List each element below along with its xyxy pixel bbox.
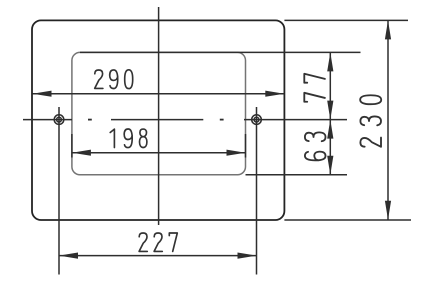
right mounting hole vertical crosshair / 227 extension line (256, 107, 258, 275)
extension line 198 left (overlapping inner rect edge) (71, 134, 73, 158)
dim text 290 (95, 70, 133, 89)
horizontal centerline segment left through hole (23, 119, 72, 121)
dimension line 230 (387, 20, 389, 219)
dimension line 227 (59, 255, 257, 257)
dim text 227 (139, 233, 177, 251)
dimension line 198 (72, 152, 246, 154)
arrow 290 right (265, 91, 284, 97)
arrow 198 right (227, 150, 246, 156)
arrow 198 left (72, 150, 91, 156)
arrow 230 up (385, 20, 391, 39)
horizontal centerline segment right through hole extended (63/77 extension) (244, 119, 347, 121)
extension line for 77 top (inner rect top edge extended) (80, 51, 361, 53)
arrow 227 left (59, 253, 78, 259)
extension line for 63 bottom (inner rect bottom edge extended) (246, 174, 348, 176)
extension line top right (for 230) (284, 19, 408, 21)
right mounting hole inner circle (254, 117, 259, 122)
arrow 290 left (33, 91, 52, 97)
dimension line 290 (33, 93, 285, 95)
extension line 198 right (overlapping inner rect edge) (245, 134, 247, 158)
right mounting hole outer circle (252, 115, 262, 125)
arrow 230 down (385, 201, 391, 220)
left mounting hole inner circle (57, 117, 62, 122)
horizontal centerline long dash (111, 119, 203, 121)
dim text 198 (110, 129, 147, 148)
left mounting hole outer circle (54, 115, 64, 125)
dimension line 63 (329, 120, 331, 175)
left mounting hole vertical crosshair / 227 extension line (58, 107, 60, 275)
outer panel outline 290x230 rounded rect (32, 20, 284, 220)
horizontal centerline dot left (88, 119, 92, 121)
arrow 63 up (327, 120, 333, 139)
arrow 77 up (327, 52, 333, 71)
dim text 77 (rotated) (304, 74, 325, 102)
dimension line 77 (329, 52, 331, 119)
extension line bottom right (for 230) (284, 219, 411, 221)
dim text 63 (rotated) (305, 132, 326, 160)
dim text 230 (rotated) (360, 95, 381, 147)
arrow 227 right (238, 253, 257, 259)
vertical centerline (158, 7, 160, 225)
arrow 77 down (327, 101, 333, 120)
inner cutout outline 198x140 rounded rect (72, 52, 246, 174)
horizontal centerline dot right (220, 119, 224, 121)
arrow 63 down (327, 156, 333, 175)
